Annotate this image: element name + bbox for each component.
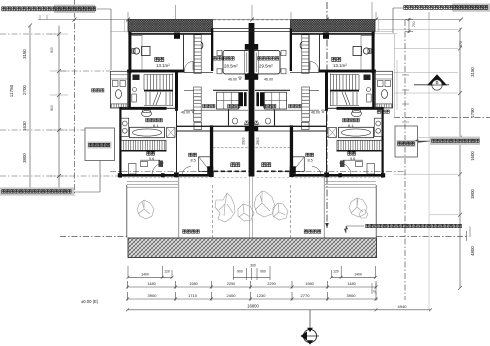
svg-text:8.5: 8.5	[191, 158, 196, 162]
shower next to tub	[167, 128, 176, 138]
lower-left outer wall	[119, 107, 121, 177]
washbasin counter	[121, 118, 129, 136]
svg-text:8.5: 8.5	[308, 158, 313, 162]
eaves thin line	[110, 20, 128, 32]
svg-text:9.6: 9.6	[149, 157, 154, 161]
annotation bottom-left gray text with leader to box	[0, 161, 100, 196]
left inner vertical dimension line	[50, 26, 68, 193]
right unit (mirror)	[245, 20, 393, 238]
svg-text:900: 900	[237, 270, 243, 274]
svg-text:3150: 3150	[470, 67, 475, 77]
wall behind bay	[128, 71, 131, 107]
small dim top-right x409	[405, 18, 413, 33]
bathtub	[130, 127, 165, 137]
svg-text:3900: 3900	[148, 293, 158, 298]
bottom dimension row D overall	[126, 308, 432, 311]
heavy wall between bed2 and living	[210, 125, 213, 174]
section marker B right side	[414, 74, 449, 90]
bottom dimension row B	[126, 281, 378, 289]
annotation right-middle gray text with leader	[414, 137, 480, 145]
bottom dimension row A small	[127, 266, 378, 280]
left outer vertical dimension line 11750	[28, 24, 32, 193]
garden center tree cluster	[215, 191, 288, 222]
left boundary dash-dot stubs	[0, 34, 127, 176]
closet strip	[120, 140, 166, 150]
right walkway edge lines	[374, 34, 397, 117]
study bottom thick wall	[127, 70, 185, 73]
garden verticals	[126, 185, 128, 238]
center gap terrace rails between roof bands	[213, 19, 291, 21]
wall below stairs	[121, 107, 167, 110]
svg-text:46.00: 46.00	[311, 110, 320, 114]
top grid dimension line	[38, 2, 461, 20]
stair right thick wall	[175, 71, 178, 111]
svg-text:2400: 2400	[227, 293, 237, 298]
svg-text:1630: 1630	[22, 121, 27, 131]
right extension lines	[377, 30, 458, 215]
svg-text:±0.00 (E): ±0.00 (E)	[81, 299, 99, 304]
terrace bottom wall and rails	[119, 174, 213, 177]
svg-text:120: 120	[164, 270, 170, 274]
boundary dash-dot x327 with arrow	[326, 2, 328, 228]
horizontal dash-dot y171.7 across plan	[110, 171, 405, 173]
room labels right unit	[258, 57, 360, 167]
svg-text:1790: 1790	[470, 108, 475, 118]
svg-text:2900: 2900	[256, 137, 260, 145]
master bedroom zone	[213, 89, 248, 91]
svg-text:2290: 2290	[267, 282, 275, 286]
garden tree right	[349, 198, 368, 218]
svg-text:B: B	[435, 80, 438, 85]
svg-text:3900: 3900	[347, 293, 357, 298]
bedroom2	[177, 130, 213, 132]
svg-text:9.6: 9.6	[350, 157, 355, 161]
outer left wall	[128, 32, 131, 74]
annotation top-right with highlight	[393, 3, 490, 33]
garden tree left	[137, 200, 154, 219]
svg-text:1600: 1600	[470, 151, 475, 161]
svg-text:2900: 2900	[242, 137, 246, 145]
ground hatch strip	[128, 238, 377, 258]
property line vertical dash-dot x74.5	[74, 0, 76, 196]
svg-text:120: 120	[333, 270, 339, 274]
left dim labels rotated	[22, 47, 54, 163]
top wall of study	[128, 33, 213, 35]
svg-text:1480: 1480	[347, 282, 355, 286]
svg-text:1980: 1980	[189, 282, 197, 286]
center party wall	[249, 23, 255, 177]
column top	[174, 33, 180, 39]
svg-text:1710: 1710	[188, 293, 198, 298]
garden center divider double line	[249, 177, 252, 238]
steps below bedroom1	[127, 182, 178, 188]
thin vertical x429	[428, 20, 430, 310]
svg-text:11750: 11750	[9, 84, 14, 97]
svg-text:1230: 1230	[257, 293, 267, 298]
svg-text:16800: 16800	[247, 303, 259, 308]
svg-text:6.1: 6.1	[153, 123, 159, 128]
bottom dimension row C	[126, 283, 378, 301]
svg-text:4800: 4800	[470, 246, 475, 256]
svg-text:1400: 1400	[354, 273, 362, 277]
svg-text:46.00: 46.00	[264, 77, 273, 81]
hall walls	[184, 73, 213, 91]
svg-text:13.1m²: 13.1m²	[333, 63, 347, 68]
right small box with gray label	[395, 126, 418, 157]
svg-text:870: 870	[459, 41, 463, 47]
study door arc	[185, 62, 194, 71]
svg-text:3150: 3150	[22, 49, 27, 59]
right property dash-dot x405	[404, 20, 406, 300]
svg-text:900: 900	[50, 47, 54, 53]
grid tick slashes top	[40, 15, 463, 22]
wc by stairs	[142, 110, 152, 116]
desk and chair	[142, 47, 151, 56]
svg-text:700: 700	[412, 21, 416, 27]
left mid box (garden plot)	[85, 128, 115, 161]
svg-text:300: 300	[250, 264, 256, 268]
room labels left unit	[146, 57, 242, 167]
study interior walls	[184, 34, 195, 72]
svg-text:2700: 2700	[22, 85, 27, 95]
living room lines	[213, 130, 248, 132]
bedroom1	[176, 110, 178, 176]
svg-text:1980: 1980	[305, 282, 313, 286]
svg-text:3800: 3800	[22, 153, 27, 163]
roof hatch band	[128, 20, 213, 32]
svg-text:3800: 3800	[470, 189, 475, 199]
svg-text:70: 70	[372, 290, 376, 294]
svg-text:2290: 2290	[227, 282, 235, 286]
annotation above ground hatch (long text right)	[344, 224, 461, 233]
svg-text:28.5m²: 28.5m²	[224, 64, 238, 69]
right vertical dimension line	[458, 28, 462, 290]
svg-text:6.1: 6.1	[348, 123, 354, 128]
terrace edge thin	[119, 177, 248, 179]
tall cabinet upper corridor	[194, 35, 203, 74]
svg-text:4940: 4940	[398, 304, 408, 309]
svg-text:1400: 1400	[141, 273, 149, 277]
closet row dressers	[217, 92, 239, 109]
svg-text:29.5m²: 29.5m²	[259, 64, 273, 69]
left bay (outside bathroom)	[111, 71, 128, 108]
svg-text:13.1m²: 13.1m²	[156, 63, 170, 68]
svg-text:46.00: 46.00	[181, 110, 190, 114]
retaining wall labels	[92, 89, 95, 92]
horizontal dash-dot y117.4 right	[394, 116, 490, 118]
svg-text:1480: 1480	[147, 282, 155, 286]
tall cabinet with rungs in corridor	[194, 87, 202, 122]
dash-dot y236.6 left and right of ground hatch	[60, 236, 128, 238]
svg-text:46.00: 46.00	[228, 77, 237, 81]
svg-text:900: 900	[50, 105, 54, 111]
annotation top-left with highlight	[2, 5, 111, 70]
svg-text:900: 900	[260, 270, 266, 274]
level benchmark symbol	[301, 310, 320, 345]
svg-text:2770: 2770	[301, 293, 311, 298]
stair block	[144, 74, 173, 107]
